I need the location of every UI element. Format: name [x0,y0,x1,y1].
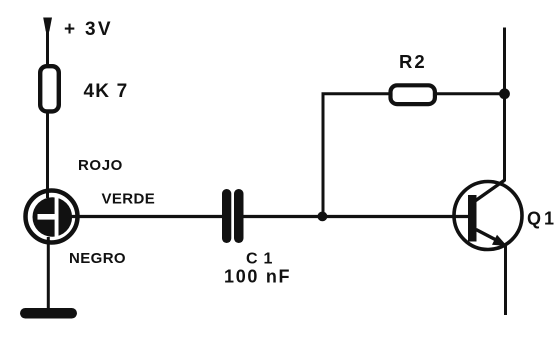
svg-text:VERDE: VERDE [102,191,156,208]
wire resistor to microphone [46,111,49,198]
wire microphone to ground [47,237,50,309]
svg-text:100 nF: 100 nF [224,267,291,287]
svg-text:ROJO: ROJO [78,157,123,174]
svg-text:4K 7: 4K 7 [84,81,129,102]
capacitor C1 [222,189,244,243]
svg-text:Q1: Q1 [527,209,555,229]
transistor Q1 body [454,180,522,250]
node junction base [318,212,328,222]
wire to resistor R2 left [322,92,391,95]
node junction collector [499,88,510,99]
resistor R1 4K7 [40,66,59,111]
ground [20,308,77,319]
wire collector rail up [503,28,506,182]
wire emitter down [504,245,507,315]
power +3V arrow [43,18,52,32]
microphone MIC body [26,191,78,243]
svg-text:+ 3V: + 3V [64,19,113,40]
wire resistor R2 to collector rail [435,92,505,95]
svg-text:NEGRO: NEGRO [69,250,126,267]
resistor R2 [391,85,435,104]
wire microphone to capacitor C1 [70,215,223,218]
wire junction up to R2 [322,94,325,218]
wire supply to resistor [46,29,49,66]
wire capacitor to transistor base [242,215,470,218]
svg-text:C1: C1 [246,251,278,268]
svg-text:R2: R2 [399,51,427,72]
